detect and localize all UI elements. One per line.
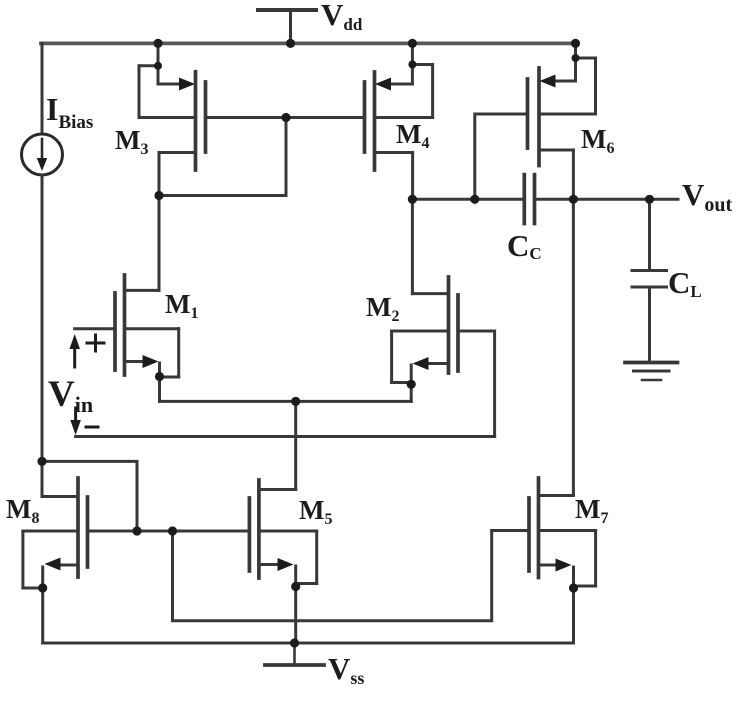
wire gate bus M3-M4 (207, 116, 364, 119)
junction tail-M5 drain (291, 397, 300, 406)
current source IBias (22, 134, 63, 175)
wire M3 diode connection (159, 118, 286, 196)
junction gate bus to M7 route (168, 526, 177, 535)
junction first stage output at M4 drain (408, 195, 417, 204)
transistor M1 (115, 196, 179, 402)
transistor M7 (492, 478, 596, 643)
wire IBias to M8 drain node (41, 175, 44, 497)
junction Vdd-M3 source (153, 39, 162, 48)
Vss supply symbol (265, 643, 324, 665)
wire Vdd rail (41, 42, 577, 46)
svg-text:CC: CC (507, 228, 542, 263)
wire Vin+ to M1 gate (75, 327, 114, 330)
junction M6 gate tap (470, 195, 479, 204)
svg-text:M1: M1 (165, 289, 198, 322)
capacitor CC (524, 175, 534, 224)
svg-text:CL: CL (668, 265, 702, 301)
svg-text:M6: M6 (581, 124, 614, 157)
junction gate bus at M8 link (132, 526, 141, 535)
wire Vin- line (76, 435, 495, 438)
junction M2 source (407, 380, 416, 389)
junction Vdd tap (286, 39, 295, 48)
junction M7 source (569, 583, 578, 592)
junction M6 drain-output node (569, 195, 578, 204)
wire M6 drain to M7 drain (572, 150, 575, 496)
wire gate bus M8-M5 (89, 530, 248, 533)
svg-text:Vin: Vin (48, 374, 93, 417)
wire differential pair tail (160, 400, 412, 403)
transistor M2 (392, 199, 458, 401)
junction M3 drain node (154, 191, 163, 200)
transistor M8 (23, 478, 88, 643)
wire Vss rail (43, 642, 574, 645)
junction M3 bulk-source tie (154, 62, 162, 70)
svg-text:M3: M3 (115, 125, 148, 158)
svg-text:M5: M5 (299, 495, 332, 528)
svg-text:M2: M2 (366, 292, 399, 325)
junction M1 source (155, 372, 164, 381)
wire M2 gate to Vin- (460, 331, 495, 437)
junction output-CL tap (645, 195, 654, 204)
junction M8 drain node (37, 457, 46, 466)
svg-text:Vout: Vout (682, 177, 733, 216)
junction M3-M4 gate bus (281, 113, 290, 122)
junction Vdd-M4 source (408, 39, 417, 48)
junction Vss tap (290, 638, 299, 647)
transistor M4 (365, 43, 433, 199)
junction M8 source (38, 583, 47, 592)
transistor M3 (139, 43, 206, 195)
Vdd supply symbol (258, 10, 316, 42)
ground (625, 363, 678, 381)
junction M6 bulk-source tie (572, 54, 580, 62)
svg-text:M8: M8 (6, 494, 39, 527)
wire left rail from Vdd down to IBias (41, 43, 44, 134)
wire M6 gate tap (475, 114, 527, 199)
input source Vin arrows (69, 334, 104, 435)
svg-text:Vdd: Vdd (321, 0, 363, 34)
svg-text:M4: M4 (396, 119, 429, 152)
capacitor CL (632, 199, 667, 361)
svg-text:IBias: IBias (46, 91, 93, 133)
transistor M6 (528, 43, 596, 165)
svg-text:M7: M7 (575, 494, 608, 527)
wire first stage output node (412, 198, 522, 201)
wire tail to M5 drain (294, 401, 297, 489)
junction Vdd-M6 source (571, 39, 580, 48)
wire output node (536, 198, 678, 201)
wire M8 drain-gate link (42, 461, 137, 531)
svg-text:Vss: Vss (328, 651, 364, 688)
junction M5 source (291, 582, 300, 591)
wire gate bus under-route to M7 (173, 531, 492, 621)
transistor M5 (249, 480, 316, 643)
junction M4 bulk-source tie (408, 61, 416, 69)
